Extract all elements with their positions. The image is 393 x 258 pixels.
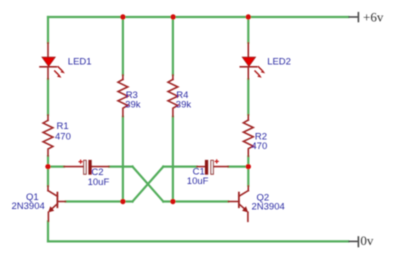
svg-text:39k: 39k xyxy=(176,100,192,111)
svg-text:470: 470 xyxy=(55,131,71,142)
svg-text:39k: 39k xyxy=(125,100,141,111)
svg-text:10uF: 10uF xyxy=(187,176,209,187)
svg-text:+6v: +6v xyxy=(363,9,384,24)
svg-text:2N3904: 2N3904 xyxy=(12,201,45,212)
svg-text:LED1: LED1 xyxy=(68,57,92,68)
svg-text:2N3904: 2N3904 xyxy=(252,202,285,213)
svg-text:LED2: LED2 xyxy=(267,56,291,67)
svg-text:0v: 0v xyxy=(360,233,374,248)
svg-text:10uF: 10uF xyxy=(88,177,110,188)
svg-text:470: 470 xyxy=(251,141,267,152)
svg-text:R1: R1 xyxy=(57,121,69,132)
